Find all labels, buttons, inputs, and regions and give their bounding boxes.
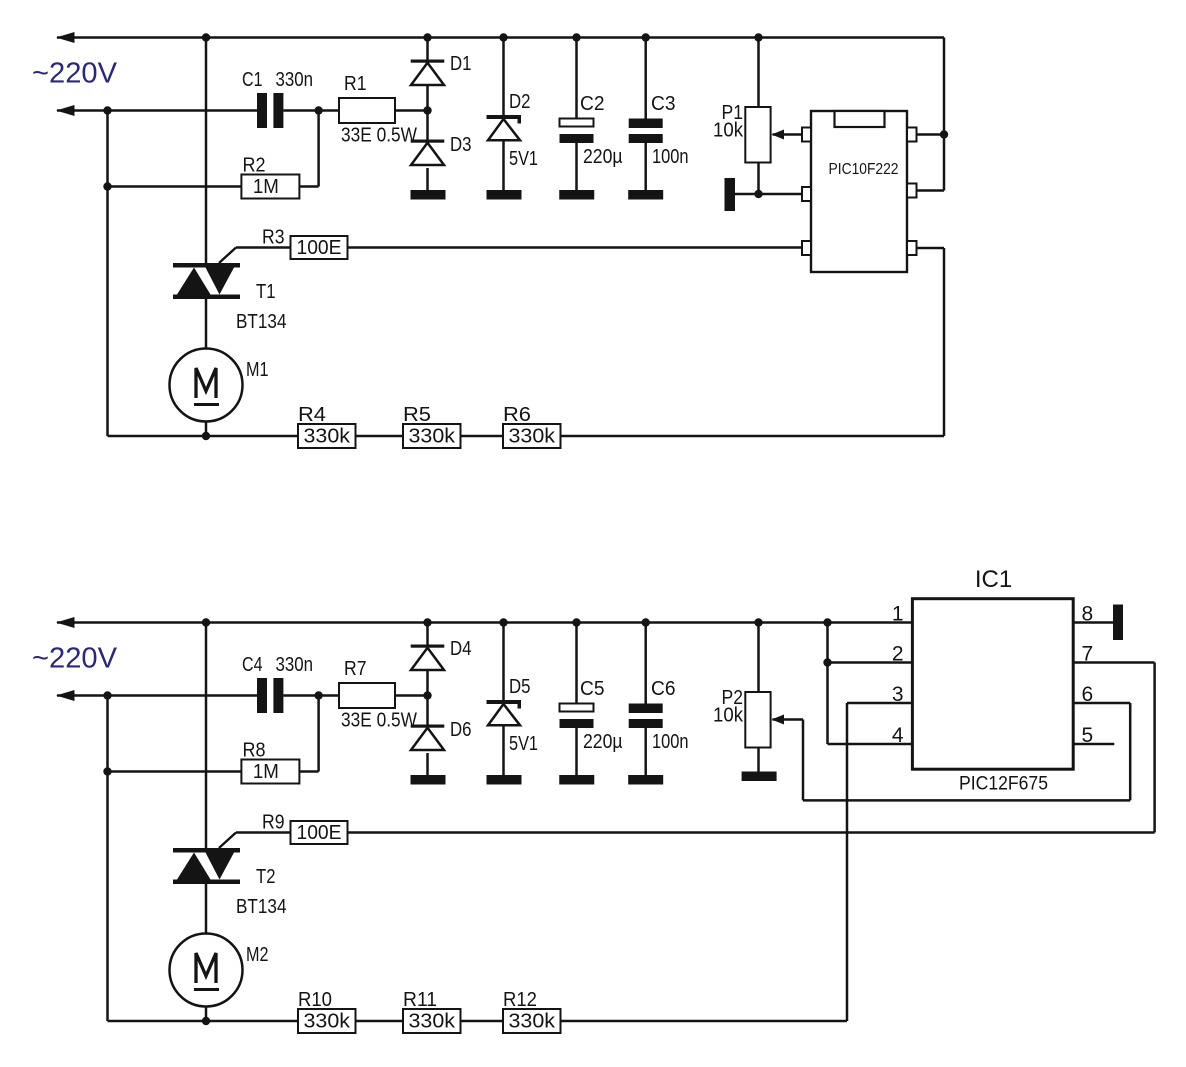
svg-text:R1: R1 bbox=[344, 73, 367, 95]
svg-text:4: 4 bbox=[892, 724, 904, 747]
svg-text:330k: 330k bbox=[304, 1011, 352, 1033]
svg-text:~220V: ~220V bbox=[32, 58, 117, 90]
svg-text:C6: C6 bbox=[651, 678, 676, 700]
svg-text:5: 5 bbox=[1082, 724, 1094, 747]
svg-text:33E 0.5W: 33E 0.5W bbox=[341, 125, 417, 147]
svg-text:10k: 10k bbox=[713, 120, 744, 142]
svg-text:R10: R10 bbox=[298, 989, 332, 1011]
svg-text:1M: 1M bbox=[253, 176, 279, 198]
svg-text:6: 6 bbox=[1082, 683, 1094, 706]
svg-text:100E: 100E bbox=[297, 822, 342, 844]
svg-text:T1: T1 bbox=[256, 281, 276, 303]
svg-text:330n: 330n bbox=[276, 654, 314, 676]
svg-text:PIC12F675: PIC12F675 bbox=[959, 773, 1048, 795]
svg-text:R8: R8 bbox=[243, 740, 266, 762]
svg-text:~220V: ~220V bbox=[32, 643, 117, 675]
svg-text:C4: C4 bbox=[242, 654, 263, 676]
svg-text:R2: R2 bbox=[243, 155, 266, 177]
svg-text:M2: M2 bbox=[246, 944, 269, 966]
svg-text:R9: R9 bbox=[262, 812, 285, 834]
svg-text:D4: D4 bbox=[450, 638, 472, 660]
svg-text:R7: R7 bbox=[344, 658, 367, 680]
svg-text:BT134: BT134 bbox=[236, 311, 287, 333]
svg-text:330k: 330k bbox=[509, 1011, 557, 1033]
svg-text:C5: C5 bbox=[580, 678, 605, 700]
svg-text:R6: R6 bbox=[503, 404, 531, 426]
svg-text:7: 7 bbox=[1082, 643, 1094, 666]
svg-text:D3: D3 bbox=[450, 134, 472, 156]
svg-text:M1: M1 bbox=[246, 359, 269, 381]
svg-text:R11: R11 bbox=[403, 989, 437, 1011]
svg-text:D1: D1 bbox=[450, 53, 472, 75]
svg-text:PIC10F222: PIC10F222 bbox=[829, 161, 899, 178]
svg-text:R3: R3 bbox=[262, 227, 285, 249]
svg-text:C2: C2 bbox=[580, 93, 605, 115]
svg-text:8: 8 bbox=[1082, 603, 1094, 626]
svg-text:BT134: BT134 bbox=[236, 896, 287, 918]
svg-text:D5: D5 bbox=[509, 676, 531, 698]
svg-text:C1: C1 bbox=[242, 69, 263, 91]
svg-text:2: 2 bbox=[892, 643, 904, 666]
svg-text:IC1: IC1 bbox=[975, 566, 1012, 593]
svg-text:5V1: 5V1 bbox=[509, 733, 538, 755]
svg-text:100n: 100n bbox=[652, 731, 689, 753]
svg-text:330n: 330n bbox=[276, 69, 314, 91]
svg-text:T2: T2 bbox=[256, 866, 276, 888]
svg-text:220µ: 220µ bbox=[583, 731, 623, 753]
svg-text:330k: 330k bbox=[409, 1011, 457, 1033]
svg-text:330k: 330k bbox=[509, 426, 557, 448]
svg-text:1M: 1M bbox=[253, 761, 279, 783]
svg-text:1: 1 bbox=[892, 603, 904, 626]
svg-text:33E 0.5W: 33E 0.5W bbox=[341, 710, 417, 732]
svg-text:330k: 330k bbox=[304, 426, 352, 448]
svg-text:100n: 100n bbox=[652, 146, 689, 168]
svg-text:D2: D2 bbox=[509, 91, 531, 113]
svg-text:10k: 10k bbox=[713, 705, 744, 727]
svg-text:R4: R4 bbox=[298, 404, 326, 426]
svg-text:220µ: 220µ bbox=[583, 146, 623, 168]
svg-text:R5: R5 bbox=[403, 404, 431, 426]
svg-text:R12: R12 bbox=[503, 989, 537, 1011]
svg-text:5V1: 5V1 bbox=[509, 148, 538, 170]
svg-text:100E: 100E bbox=[297, 237, 342, 259]
svg-text:3: 3 bbox=[892, 683, 904, 706]
svg-text:C3: C3 bbox=[651, 93, 676, 115]
svg-text:D6: D6 bbox=[450, 719, 472, 741]
svg-text:330k: 330k bbox=[409, 426, 457, 448]
